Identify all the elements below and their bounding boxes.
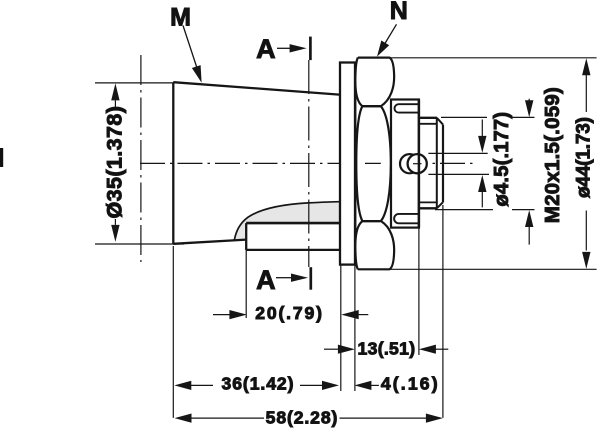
centerline (shaft axis) <box>140 162 474 164</box>
dimension 20(.79) <box>213 314 231 316</box>
section arrow A bottom <box>276 277 291 279</box>
shaft taper top edge <box>173 82 339 94</box>
flange plate <box>340 63 355 265</box>
washer top slot <box>395 104 419 112</box>
dimension 4(.16) <box>371 384 379 386</box>
svg-text:ø44(1.73): ø44(1.73) <box>574 117 595 198</box>
svg-text:M: M <box>170 3 191 31</box>
tab washer body <box>391 100 419 228</box>
thread chamfer start line <box>436 118 438 209</box>
svg-text:M20x1.5(.059): M20x1.5(.059) <box>541 87 564 223</box>
dimension 13(.51) <box>324 348 338 350</box>
page edge mark <box>0 148 3 167</box>
svg-text:ø4.5(.177): ø4.5(.177) <box>491 112 513 207</box>
nut facet waist lines <box>362 106 381 221</box>
key (gray keyway area) <box>234 202 340 240</box>
section tick A top <box>309 37 312 61</box>
shaft end step <box>245 223 247 250</box>
dimension O35 arrows <box>114 100 116 224</box>
extension line shaft end step <box>245 250 247 318</box>
section line A-A <box>308 60 310 267</box>
svg-text:N: N <box>390 0 408 25</box>
svg-text:36(1.42): 36(1.42) <box>222 374 294 394</box>
shaft taper bottom edge <box>173 240 246 244</box>
stem end chamfers <box>437 118 443 209</box>
extension line plate right <box>354 265 356 391</box>
leader N <box>383 24 397 47</box>
keyway runout curve <box>234 202 340 240</box>
dimension M20x1.5 arrows <box>528 99 530 245</box>
extension line shaft left <box>172 246 174 418</box>
svg-text:A: A <box>256 265 276 295</box>
dimension 36(1.42) <box>190 384 322 386</box>
dimension o44 line with arrows <box>585 75 587 251</box>
section arrow A top <box>277 47 290 49</box>
threaded stem M20x1.5 outer lines <box>419 118 437 209</box>
shaft end cylinder top edge <box>246 222 340 225</box>
svg-text:4(.16): 4(.16) <box>381 374 438 394</box>
svg-text:13(.51): 13(.51) <box>358 338 416 358</box>
shaft taper left edge <box>172 82 174 244</box>
section tick A bottom <box>309 267 312 290</box>
nut N (hex nut side view) <box>355 58 394 270</box>
hole centerline dash <box>413 163 422 165</box>
svg-text:58(2.28): 58(2.28) <box>266 407 338 427</box>
auxiliary vertical dash-dot line <box>140 55 142 262</box>
svg-text:A: A <box>256 34 276 64</box>
pin hole o4.5 circle <box>408 154 427 173</box>
dimension M20x1.5 extension lines <box>435 117 535 209</box>
thread minor diameter lines <box>419 124 437 203</box>
dimension o4.5 arrows <box>481 120 483 208</box>
svg-text:Ø35(1.378): Ø35(1.378) <box>102 106 126 219</box>
washer right edge (through hole) <box>418 100 421 228</box>
extension line washer right <box>418 228 420 355</box>
stem end face <box>442 125 444 203</box>
pin hole far-side arc (crescent) <box>400 154 419 173</box>
dimension o44 extension lines <box>381 58 597 269</box>
shaft end cylinder bottom edge <box>246 249 340 251</box>
extension line plate left <box>340 265 342 391</box>
dimension O35 extension lines <box>95 83 184 244</box>
extension line stem end <box>442 205 444 418</box>
leader M <box>183 26 198 70</box>
washer bottom slot <box>394 214 419 223</box>
dimension o4.5 extension lines <box>428 153 489 174</box>
dimension 58(2.28) <box>191 417 427 419</box>
